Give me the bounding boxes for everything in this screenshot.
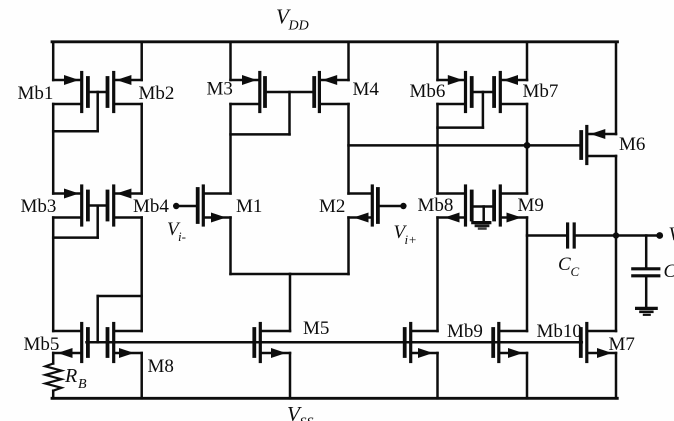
label M8 [148, 356, 174, 377]
wire Mb9 source to VSS [436, 353, 439, 398]
wire VDD to Mb6 source [436, 42, 439, 80]
transistor M5 [254, 324, 290, 362]
svg-text:SS: SS [300, 416, 314, 421]
label Vi- [167, 219, 186, 244]
wire Mb2 drain to Mb4 source [140, 104, 143, 194]
svg-text:M8: M8 [148, 356, 174, 377]
wire Mb10 source to VSS [526, 353, 529, 398]
wire Mb6 Mb7 gate link [474, 91, 493, 94]
label VSS [287, 402, 314, 421]
svg-text:Mb9: Mb9 [447, 321, 483, 342]
transistor Mb1 [53, 73, 88, 112]
label M2 [319, 196, 345, 217]
wire bias line row3 (gates Mb5 M8 M5 Mb9 Mb10 M7) [87, 341, 582, 344]
label RB [64, 365, 87, 392]
resistor RB [45, 364, 61, 399]
wire M4 drain to M2 drain [347, 104, 350, 194]
svg-text:Mb3: Mb3 [21, 196, 57, 217]
svg-text:M1: M1 [236, 196, 262, 217]
transistor Mb5 [53, 324, 88, 362]
transistor M4 [314, 73, 348, 112]
wire M5 source to VSS [289, 353, 292, 398]
transistor M9 [494, 186, 527, 225]
svg-text:Mb7: Mb7 [523, 81, 559, 102]
wire M6 drain to M7 drain [615, 156, 618, 331]
node output junction on M6 drain [613, 232, 619, 238]
wire Mb7 drain to M9 drain [526, 104, 529, 194]
svg-text:C: C [571, 264, 580, 279]
label Mb3 [21, 196, 57, 217]
svg-text:Mb5: Mb5 [24, 334, 60, 355]
wire Mb1 Mb2 gate link [90, 91, 106, 94]
wire VDD to M4 source [347, 42, 350, 80]
label CL (cut off) [664, 261, 674, 282]
label M6 [619, 134, 645, 155]
wire Mb8 M9 gate ground stub [482, 207, 485, 221]
transistor M3 [231, 73, 266, 112]
wire M8 source to VSS [140, 353, 143, 398]
wire M1 gate input lead [176, 205, 196, 208]
wire M9 source to Mb10 drain [526, 218, 529, 332]
wire CC to output node [576, 234, 660, 237]
svg-text:Mb1: Mb1 [18, 83, 54, 104]
transistor M8 [108, 324, 142, 362]
label M7 [609, 334, 635, 355]
svg-text:M6: M6 [619, 134, 645, 155]
svg-text:Mb10: Mb10 [537, 321, 582, 342]
VSS rail [52, 397, 617, 400]
svg-text:C: C [664, 261, 674, 282]
label VDD [276, 5, 309, 34]
wire Mb3 Mb4 gate link [90, 204, 106, 207]
wire tail node to M5 drain [289, 274, 292, 331]
wire M3 gate diode tie [231, 92, 290, 134]
label M5 [303, 318, 329, 339]
wire M2 source to tail node [290, 273, 349, 276]
wire M1 source to tail node [231, 273, 291, 276]
transistor Mb7 [494, 73, 527, 112]
svg-text:M5: M5 [303, 318, 329, 339]
node output terminal [656, 232, 663, 239]
label Mb6 [410, 81, 446, 102]
svg-text:V: V [669, 224, 674, 245]
wire Mb8 M9 gate link [474, 205, 493, 208]
label Mb2 [139, 83, 175, 104]
ground below CL [637, 308, 657, 314]
label Mb1 [18, 83, 54, 104]
wire Mb3 drain to Mb5 drain [52, 218, 55, 332]
wire M3 drain to M1 drain [229, 104, 232, 194]
transistor Mb4 [108, 186, 142, 225]
label M1 [236, 196, 262, 217]
svg-text:Mb4: Mb4 [133, 196, 169, 217]
wire M3 M4 gate link [267, 91, 313, 94]
label M9 [518, 195, 544, 216]
transistor Mb10 [493, 324, 527, 362]
svg-text:B: B [78, 377, 87, 392]
transistor Mb9 [405, 324, 438, 362]
label Mb9 [447, 321, 483, 342]
wire Mb6 drain to Mb8 drain [436, 104, 439, 194]
svg-text:M4: M4 [353, 79, 380, 100]
wire right rail VDD to M6 source [615, 42, 618, 134]
wire VDD to M3 source [229, 42, 232, 80]
transistor Mb2 [108, 73, 142, 112]
label Mb4 [133, 196, 169, 217]
wire VDD to Mb2 source [140, 42, 143, 80]
wire M1 source down [229, 218, 232, 275]
wire output to CL [645, 236, 648, 268]
node Vi+ input terminal [400, 203, 406, 209]
wire left rail VDD to Mb1 [52, 42, 55, 80]
label Mb8 [418, 195, 454, 216]
label CC [558, 254, 580, 279]
ground at Mb8 M9 gates [473, 223, 490, 229]
svg-text:Mb6: Mb6 [410, 81, 446, 102]
svg-text:Mb2: Mb2 [139, 83, 175, 104]
wire Mb1 drain to Mb3 source [52, 104, 55, 194]
svg-text:M7: M7 [609, 334, 635, 355]
transistor M6 [581, 127, 616, 164]
wire M4 drain to M6 gate [349, 144, 580, 147]
wire VDD to Mb7 source [526, 42, 529, 80]
wire Mb4 drain to M8 drain [140, 218, 143, 332]
wire M2 gate input lead [380, 205, 404, 208]
wire Mb6 gate diode tie [438, 92, 483, 128]
transistor M7 [581, 324, 616, 362]
wire CL to ground [645, 277, 648, 306]
transistor Mb6 [438, 73, 472, 112]
transistor Mb3 [53, 186, 88, 225]
capacitor CL [633, 269, 659, 276]
transistor M1 [198, 186, 231, 225]
svg-text:i-: i- [178, 229, 186, 244]
transistor M2 [349, 186, 378, 225]
label M3 [207, 79, 233, 100]
label M4 [353, 79, 380, 100]
svg-text:DD: DD [288, 19, 309, 34]
wire M2 source down [347, 218, 350, 275]
svg-text:R: R [64, 365, 77, 387]
svg-text:M9: M9 [518, 195, 544, 216]
wire M8 gate diode tie [98, 296, 142, 342]
svg-text:M3: M3 [207, 79, 233, 100]
label Vout (cut off) [669, 224, 674, 245]
transistor Mb8 [438, 186, 472, 225]
label Mb10 [537, 321, 582, 342]
node Vi- input terminal [173, 203, 179, 209]
label Mb7 [523, 81, 559, 102]
node M6 gate junction [524, 142, 531, 149]
wire Mb3 gate diode tie [53, 206, 97, 238]
svg-text:i+: i+ [405, 232, 417, 247]
label Vi+ [394, 222, 417, 247]
svg-text:C: C [558, 254, 571, 275]
capacitor CC [568, 224, 575, 247]
wire Mb5 source to RB [52, 353, 55, 364]
wire Mb8 source to Mb9 drain [436, 218, 439, 332]
label Mb5 [24, 334, 60, 355]
svg-text:M2: M2 [319, 196, 345, 217]
svg-text:Mb8: Mb8 [418, 195, 454, 216]
wire M9 source to CC line [527, 234, 566, 237]
wire Mb1 gate diode tie [53, 92, 97, 131]
VDD rail [52, 40, 618, 43]
wire M7 source to VSS [615, 353, 618, 398]
